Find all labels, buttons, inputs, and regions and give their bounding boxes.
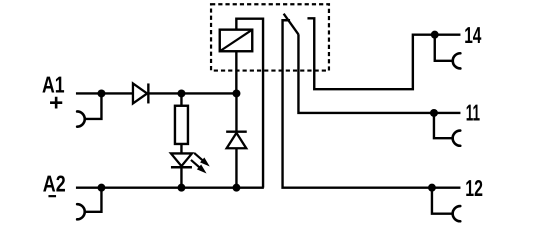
node terminal 11 bbox=[430, 109, 438, 117]
contact moving arm bbox=[284, 14, 299, 35]
node top rail / A1 bbox=[97, 89, 105, 97]
label A1 bbox=[42, 72, 65, 98]
terminal clamp 12 bbox=[453, 206, 461, 221]
node bottom rail / LED bbox=[177, 184, 185, 192]
wire terminal 14 branch bbox=[435, 35, 453, 61]
label 12 bbox=[465, 175, 483, 201]
contact NC wire to terminal 12 bbox=[283, 20, 461, 187]
svg-text:14: 14 bbox=[464, 22, 481, 48]
wire resistor to LED bbox=[180, 144, 182, 154]
terminal clamp 11 bbox=[453, 131, 461, 146]
wire A1 terminal branch bbox=[85, 93, 102, 119]
contact NO wire to terminal 14 bbox=[307, 18, 460, 89]
label + bbox=[50, 97, 62, 109]
wire bottom rail A2 bbox=[76, 186, 264, 188]
node terminal 12 bbox=[428, 184, 436, 192]
LED bbox=[171, 153, 192, 187]
LED emission arrow 2 bbox=[191, 160, 207, 174]
wire A2 terminal branch bbox=[85, 188, 102, 212]
label 11 bbox=[466, 100, 480, 126]
wire terminal 11 branch bbox=[434, 113, 453, 138]
wire terminal 12 branch bbox=[432, 188, 453, 214]
terminal clamp 14 bbox=[453, 53, 461, 68]
wire coil top lead to bottom rail bbox=[236, 19, 263, 188]
label A2 bbox=[43, 171, 66, 197]
relay coil K1 bbox=[220, 30, 253, 52]
node bottom rail / A2 bbox=[97, 184, 105, 192]
node terminal 14 bbox=[431, 31, 439, 39]
svg-text:A1: A1 bbox=[42, 72, 65, 98]
svg-text:11: 11 bbox=[466, 100, 480, 126]
node top rail / coil bbox=[232, 89, 240, 97]
terminal clamp A2 bbox=[77, 204, 85, 219]
svg-text:A2: A2 bbox=[43, 171, 66, 197]
wire top rail A1 bbox=[76, 92, 237, 94]
node top rail / resistor bbox=[177, 89, 185, 97]
contact pole wire to terminal 11 bbox=[298, 34, 460, 113]
LED emission arrow 1 bbox=[194, 153, 210, 167]
dashed relay enclosure bbox=[211, 4, 329, 70]
label minus bbox=[48, 195, 56, 197]
node bottom rail / diode D2 bbox=[232, 184, 240, 192]
label 14 bbox=[464, 22, 481, 48]
diode D1 bbox=[133, 83, 148, 103]
terminal clamp A1 bbox=[77, 111, 85, 126]
diode D2 freewheeling bbox=[226, 93, 247, 187]
wire coil bottom lead bbox=[235, 51, 237, 93]
svg-text:12: 12 bbox=[465, 175, 483, 201]
resistor R1 bbox=[175, 93, 188, 144]
